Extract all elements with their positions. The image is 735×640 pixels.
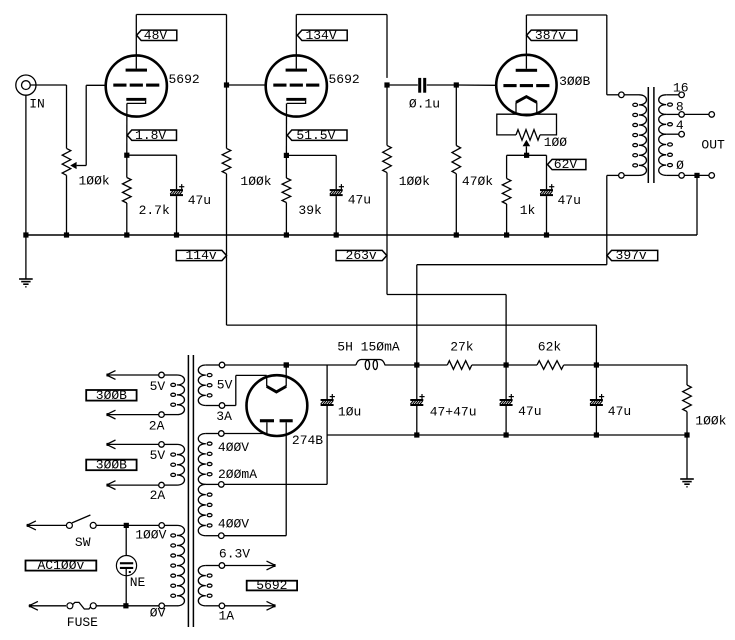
svg-text:Ø: Ø [676, 158, 684, 173]
svg-text:134V: 134V [305, 28, 336, 43]
svg-text:47u: 47u [608, 404, 631, 419]
svg-text:4: 4 [676, 118, 684, 133]
svg-text:3ØØB: 3ØØB [96, 388, 127, 403]
svg-text:397v: 397v [616, 248, 647, 263]
svg-text:NE: NE [130, 575, 146, 590]
svg-text:47u: 47u [518, 404, 541, 419]
svg-text:1Øu: 1Øu [338, 404, 361, 419]
svg-text:4ØØV: 4ØØV [218, 440, 249, 455]
svg-text:AC1ØØv: AC1ØØv [37, 558, 84, 573]
svg-text:IN: IN [29, 97, 45, 112]
svg-text:5H 15ØmA: 5H 15ØmA [337, 339, 400, 354]
svg-text:263v: 263v [346, 248, 377, 263]
svg-text:3A: 3A [216, 409, 232, 424]
svg-text:16: 16 [673, 81, 689, 96]
svg-text:5V: 5V [150, 379, 166, 394]
svg-text:62V: 62V [554, 157, 578, 172]
svg-text:1ØØ: 1ØØ [544, 135, 568, 150]
svg-text:5692: 5692 [168, 72, 199, 87]
svg-text:6.3V: 6.3V [219, 547, 250, 562]
svg-text:ØV: ØV [150, 605, 166, 620]
svg-text:1ØØk: 1ØØk [695, 413, 726, 428]
svg-text:1ØØk: 1ØØk [240, 174, 271, 189]
svg-text:3ØØB: 3ØØB [96, 458, 127, 473]
svg-text:8: 8 [676, 100, 684, 115]
svg-text:2.7k: 2.7k [139, 203, 170, 218]
svg-text:1k: 1k [520, 203, 536, 218]
svg-text:47+47u: 47+47u [430, 404, 477, 419]
svg-text:Ø.1u: Ø.1u [409, 96, 440, 111]
svg-text:5V: 5V [217, 378, 233, 393]
svg-text:47u: 47u [557, 193, 580, 208]
svg-text:274B: 274B [292, 433, 323, 448]
svg-text:SW: SW [75, 535, 91, 550]
svg-text:2A: 2A [149, 419, 165, 434]
svg-text:2ØØmA: 2ØØmA [218, 467, 257, 482]
svg-text:47u: 47u [188, 193, 211, 208]
svg-text:5692: 5692 [256, 578, 287, 593]
svg-text:1A: 1A [218, 609, 234, 624]
svg-text:FUSE: FUSE [67, 615, 98, 630]
svg-text:114v: 114v [185, 248, 216, 263]
svg-text:51.5V: 51.5V [296, 128, 335, 143]
svg-text:5692: 5692 [328, 72, 359, 87]
svg-text:387v: 387v [535, 28, 566, 43]
svg-text:2A: 2A [150, 488, 166, 503]
svg-text:5V: 5V [150, 448, 166, 463]
svg-text:48V: 48V [144, 28, 168, 43]
svg-text:1ØØk: 1ØØk [78, 173, 109, 188]
svg-text:1ØØV: 1ØØV [135, 527, 166, 542]
svg-text:62k: 62k [538, 339, 562, 354]
svg-text:27k: 27k [450, 339, 474, 354]
svg-text:47Øk: 47Øk [462, 174, 493, 189]
svg-text:47u: 47u [348, 193, 371, 208]
svg-text:OUT: OUT [701, 138, 725, 153]
svg-text:1.8V: 1.8V [135, 128, 166, 143]
svg-text:39k: 39k [298, 203, 322, 218]
svg-text:3ØØB: 3ØØB [559, 74, 590, 89]
svg-text:1ØØk: 1ØØk [399, 174, 430, 189]
svg-text:4ØØV: 4ØØV [218, 516, 249, 531]
